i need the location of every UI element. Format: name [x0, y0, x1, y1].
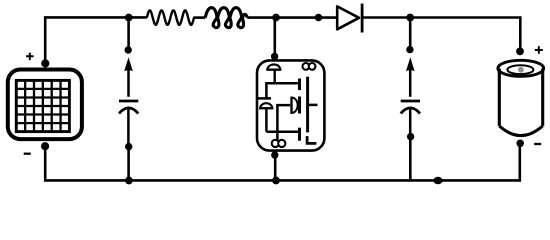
transistor Q1 body arrow stem (left, down to source lead) [265, 109, 268, 132]
wire: bottom rail (PV- to battery -) [45, 143, 520, 180]
solar panel PV1 cell grid [16, 80, 69, 131]
decoration: Q1 top bubbles [303, 63, 310, 70]
capacitor C1 polarity arrow [127, 69, 130, 97]
transistor Q1 substrate arrow head (D shape) [292, 98, 298, 113]
transistor Q1 channel segment bottom [298, 128, 301, 141]
transistor Q1 gate bar [306, 77, 309, 133]
node: junction top rail / output cap / diode cathode [406, 14, 414, 22]
wire: MOSFET drain lead (top) [273, 17, 276, 56]
wire: output capacitor bottom lead [409, 137, 412, 181]
node: diode anode [315, 14, 323, 22]
wire: Q1 drain internal lead [266, 83, 299, 98]
node: Q1 drain terminal [271, 53, 278, 60]
wire: top rail inductor to diode anode [247, 16, 336, 19]
battery BT1 top ellipse [498, 60, 544, 76]
wire: Q1 source internal lead [266, 130, 298, 133]
wire: top rail between resistor and inductor [193, 16, 205, 19]
capacitor C2 polarity arrow [409, 69, 412, 97]
battery BT1 bottom arc [499, 126, 542, 136]
label: PV1 minus sign [24, 153, 31, 155]
node: junction bottom rail right [433, 177, 442, 184]
transistor Q1 drain arrow head (dome) [267, 64, 280, 69]
wire: top rail left segment (PV+ to resistor) [45, 17, 147, 63]
inductor L1 (looped coil) [205, 8, 247, 28]
capacitor C1 curved plate [119, 108, 138, 114]
transistor Q1 body arrow head (dome) [260, 103, 272, 108]
label: BT1 minus sign [534, 143, 541, 145]
capacitor C2 curved plate [401, 108, 420, 114]
capacitor C1 lower stem [127, 109, 130, 147]
transistor Q1 substrate arrow lead [277, 105, 290, 140]
capacitor C2 straight plate [401, 100, 420, 103]
node: junction top rail / input cap [125, 14, 133, 22]
node: junction top rail / MOSFET drain [272, 14, 280, 22]
transistor Q1 drain arrow stem [274, 70, 276, 83]
decoration: Q1 bottom bubbles [272, 140, 279, 147]
battery BT1 inner terminal ellipse [507, 65, 533, 74]
resistor R1 (inductor ESR, wavy line) [147, 10, 194, 25]
capacitor C2 lower stem [409, 109, 412, 137]
node: PV1 positive terminal [41, 59, 49, 67]
label: BT1 plus sign [535, 46, 543, 53]
wire: input capacitor top lead [127, 17, 130, 50]
wire: top rail diode cathode to battery + [362, 18, 520, 52]
solar panel PV1 outline [8, 70, 82, 140]
label: PV1 plus sign [26, 53, 33, 61]
battery BT1 body sides [499, 69, 542, 126]
capacitor C1 straight plate [119, 100, 138, 103]
node: Q1 source terminal [271, 151, 278, 158]
transistor Q1 gate foot (L mark) [307, 136, 316, 143]
wire: output capacitor top lead [409, 17, 412, 49]
node: C2 bottom terminal [407, 133, 414, 140]
battery BT1 center button [518, 67, 524, 73]
transistor Q1 channel segment middle [298, 97, 301, 114]
node: C1 bottom terminal [125, 143, 132, 150]
node: junction bottom rail / input cap [125, 177, 133, 185]
node: C2 top terminal [406, 46, 413, 53]
node: C1 top terminal [125, 46, 132, 53]
node: BT1 positive terminal [516, 48, 524, 56]
wire: MOSFET source lead (bottom) [274, 151, 277, 180]
transistor Q1 channel segment top [298, 79, 301, 91]
node: junction bottom rail / MOSFET source [272, 177, 280, 185]
node: BT1 negative terminal [516, 140, 524, 148]
node: PV1 negative terminal [41, 142, 49, 150]
wire: Q1 internal bar above body arrow [258, 97, 272, 100]
wire: input capacitor bottom lead [127, 147, 130, 181]
transistor Q1 module box [257, 60, 324, 150]
diode D1 cathode bar [361, 4, 364, 33]
wire: Q1 gate lead stub [308, 104, 318, 107]
diode D1 triangle [337, 6, 359, 29]
